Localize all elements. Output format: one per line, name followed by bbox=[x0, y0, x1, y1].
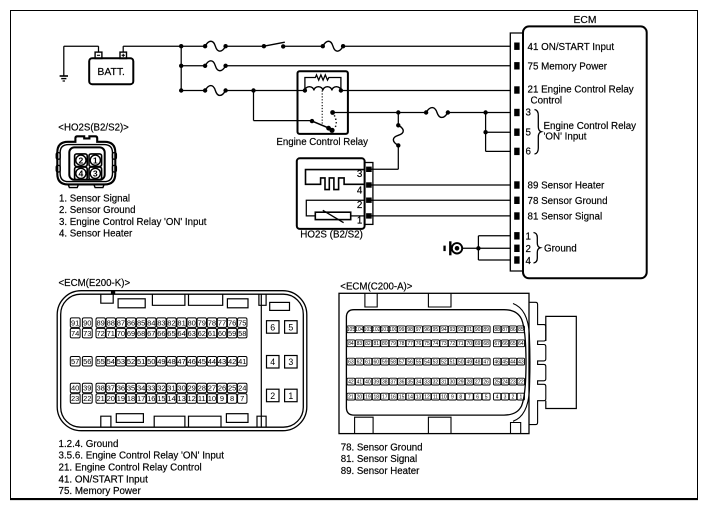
svg-text:60: 60 bbox=[374, 360, 380, 366]
svg-text:13: 13 bbox=[177, 394, 185, 403]
svg-text:27: 27 bbox=[475, 380, 481, 386]
svg-text:59: 59 bbox=[228, 329, 236, 338]
svg-text:8: 8 bbox=[459, 395, 462, 401]
svg-text:16: 16 bbox=[147, 394, 155, 403]
svg-text:58: 58 bbox=[238, 329, 246, 338]
wire to ECM pin 2 bbox=[478, 247, 511, 249]
svg-text:86: 86 bbox=[510, 327, 516, 333]
svg-text:91: 91 bbox=[71, 318, 79, 327]
svg-text:42: 42 bbox=[348, 380, 354, 386]
svg-text:3: 3 bbox=[288, 357, 293, 367]
svg-text:78: 78 bbox=[399, 341, 405, 347]
node E junction (x478,y248) bbox=[476, 246, 480, 250]
svg-text:51: 51 bbox=[137, 357, 145, 366]
svg-text:101: 101 bbox=[381, 327, 390, 333]
ECM connector strip bbox=[510, 33, 523, 271]
svg-text:55: 55 bbox=[97, 357, 105, 366]
svg-text:73: 73 bbox=[441, 341, 447, 347]
svg-text:97: 97 bbox=[416, 327, 422, 333]
svg-text:16: 16 bbox=[390, 395, 396, 401]
svg-text:84: 84 bbox=[348, 341, 354, 347]
svg-text:30: 30 bbox=[450, 380, 456, 386]
svg-text:74: 74 bbox=[71, 329, 79, 338]
svg-text:18: 18 bbox=[374, 395, 380, 401]
body ground symbol bbox=[443, 241, 462, 255]
wire relay output to node C bbox=[333, 112, 399, 114]
wire row1 node A to fuse F1 bbox=[181, 45, 205, 47]
svg-text:44: 44 bbox=[208, 357, 216, 366]
svg-text:62: 62 bbox=[357, 360, 363, 366]
svg-text:105: 105 bbox=[347, 327, 356, 333]
node A junction (x181,y46) bbox=[179, 44, 183, 48]
svg-text:78. Sensor Ground: 78. Sensor Ground bbox=[341, 443, 423, 454]
svg-text:60: 60 bbox=[218, 329, 226, 338]
svg-text:81: 81 bbox=[177, 318, 185, 327]
svg-text:1: 1 bbox=[519, 395, 522, 401]
svg-text:90: 90 bbox=[83, 318, 91, 327]
svg-text:7: 7 bbox=[240, 394, 244, 403]
svg-text:57: 57 bbox=[399, 360, 405, 366]
svg-text:Engine Control Relay: Engine Control Relay bbox=[276, 137, 368, 148]
svg-text:58: 58 bbox=[390, 360, 396, 366]
wire row3 bus to fuse F4 bbox=[181, 90, 205, 92]
relay switch blade and contacts bbox=[310, 110, 336, 133]
svg-text:24: 24 bbox=[502, 380, 508, 386]
HO2S pin 1 terminal bbox=[367, 214, 372, 218]
svg-text:12: 12 bbox=[188, 394, 196, 403]
svg-text:86: 86 bbox=[127, 318, 135, 327]
svg-text:3. Engine Control Relay 'ON': 3. Engine Control Relay 'ON' Input bbox=[59, 217, 207, 228]
svg-text:82: 82 bbox=[167, 318, 175, 327]
svg-text:4. Sensor Heater: 4. Sensor Heater bbox=[59, 229, 133, 240]
svg-text:75. Memory Power: 75. Memory Power bbox=[59, 486, 142, 497]
svg-text:6: 6 bbox=[526, 146, 532, 157]
svg-text:54: 54 bbox=[107, 357, 115, 366]
svg-text:48: 48 bbox=[475, 360, 481, 366]
svg-text:68: 68 bbox=[137, 329, 145, 338]
svg-text:2: 2 bbox=[270, 391, 275, 401]
svg-text:69: 69 bbox=[475, 341, 481, 347]
svg-text:1: 1 bbox=[93, 155, 98, 165]
wire to ECM pin 4 bbox=[478, 259, 511, 261]
svg-text:1. Sensor Signal: 1. Sensor Signal bbox=[59, 193, 130, 204]
HO2S signal element (square wave) bbox=[306, 170, 365, 190]
C200-A connector housing bbox=[339, 293, 576, 433]
svg-text:50: 50 bbox=[458, 360, 464, 366]
svg-text:88: 88 bbox=[107, 318, 115, 327]
wire node C to fuse F5 bbox=[398, 112, 426, 114]
svg-text:20: 20 bbox=[357, 395, 363, 401]
svg-text:13: 13 bbox=[416, 395, 422, 401]
svg-text:26: 26 bbox=[218, 384, 226, 393]
svg-text:37: 37 bbox=[390, 380, 396, 386]
svg-text:63: 63 bbox=[188, 329, 196, 338]
ECM box bbox=[523, 26, 647, 278]
svg-text:18: 18 bbox=[127, 394, 135, 403]
svg-text:50: 50 bbox=[147, 357, 155, 366]
wire fuse F1 to switch S1 bbox=[226, 45, 264, 47]
svg-text:1: 1 bbox=[526, 231, 531, 242]
svg-text:92: 92 bbox=[458, 327, 464, 333]
E200-K pin row 74-58 bbox=[70, 328, 247, 338]
node C junction (x399,y112) bbox=[396, 110, 400, 114]
HO2S connector cavities 2-1-4-3 bbox=[75, 154, 102, 180]
svg-text:40: 40 bbox=[71, 384, 79, 393]
svg-text:10: 10 bbox=[441, 395, 447, 401]
wire body ground to node E bbox=[462, 247, 478, 249]
ground bus vertical pins 1-2-4 bbox=[477, 236, 479, 260]
svg-text:77: 77 bbox=[218, 318, 226, 327]
svg-text:1: 1 bbox=[288, 391, 293, 401]
svg-text:1: 1 bbox=[357, 216, 362, 227]
svg-text:52: 52 bbox=[441, 360, 447, 366]
svg-text:82: 82 bbox=[365, 341, 371, 347]
svg-text:39: 39 bbox=[374, 380, 380, 386]
svg-text:3.5.6. Engine Control Relay ': 3.5.6. Engine Control Relay 'ON' Input bbox=[59, 451, 225, 462]
svg-text:<HO2S(B2/S2)>: <HO2S(B2/S2)> bbox=[58, 122, 129, 133]
svg-text:4: 4 bbox=[270, 357, 275, 367]
svg-text:34: 34 bbox=[137, 384, 145, 393]
svg-text:'ON' Input: 'ON' Input bbox=[544, 132, 587, 143]
wire to ECM pin 5 bbox=[486, 131, 511, 133]
svg-text:11: 11 bbox=[198, 394, 206, 403]
wire relay coil to ECM pin 21 bbox=[341, 90, 511, 92]
svg-text:41: 41 bbox=[357, 380, 363, 386]
C200-A pin row 21-1 bbox=[347, 393, 525, 400]
svg-text:23: 23 bbox=[510, 380, 516, 386]
svg-text:91: 91 bbox=[466, 327, 472, 333]
svg-text:77: 77 bbox=[407, 341, 413, 347]
svg-text:81 Sensor Signal: 81 Sensor Signal bbox=[528, 212, 603, 223]
svg-text:48: 48 bbox=[167, 357, 175, 366]
svg-text:46: 46 bbox=[494, 360, 500, 366]
svg-text:33: 33 bbox=[147, 384, 155, 393]
svg-text:27: 27 bbox=[208, 384, 216, 393]
C200-A pin row 84-64 bbox=[347, 340, 525, 347]
HO2S connector strip bbox=[365, 163, 373, 225]
svg-text:68: 68 bbox=[483, 341, 489, 347]
C200-A pin row 105-85 bbox=[347, 326, 525, 333]
svg-text:21 Engine Control Relay: 21 Engine Control Relay bbox=[528, 85, 634, 96]
svg-text:98: 98 bbox=[407, 327, 413, 333]
svg-text:31: 31 bbox=[167, 384, 175, 393]
svg-text:54: 54 bbox=[424, 360, 430, 366]
svg-text:46: 46 bbox=[188, 357, 196, 366]
svg-text:89. Sensor Heater: 89. Sensor Heater bbox=[341, 466, 420, 477]
svg-text:61: 61 bbox=[208, 329, 216, 338]
svg-text:9: 9 bbox=[220, 394, 224, 403]
wire node B to relay coil bbox=[254, 90, 305, 92]
svg-text:2: 2 bbox=[357, 200, 362, 211]
svg-text:64: 64 bbox=[177, 329, 185, 338]
fuse F6 (vertical, HO2S relay feed) bbox=[393, 125, 403, 145]
wire to ECM pin 6 bbox=[486, 150, 511, 152]
svg-text:36: 36 bbox=[399, 380, 405, 386]
svg-text:37: 37 bbox=[107, 384, 115, 393]
svg-text:2: 2 bbox=[526, 244, 531, 255]
svg-text:74: 74 bbox=[433, 341, 439, 347]
svg-text:20: 20 bbox=[107, 394, 115, 403]
svg-text:49: 49 bbox=[157, 357, 165, 366]
HO2S pin 4 terminal bbox=[367, 183, 372, 187]
svg-text:52: 52 bbox=[127, 357, 135, 366]
svg-text:15: 15 bbox=[157, 394, 165, 403]
svg-text:BATT.: BATT. bbox=[97, 67, 125, 78]
wire node C down to fuse F6 bbox=[397, 113, 399, 126]
svg-text:36: 36 bbox=[117, 384, 125, 393]
bus vertical wire node A down bbox=[180, 46, 182, 90]
svg-text:14: 14 bbox=[167, 394, 175, 403]
svg-text:2. Sensor Ground: 2. Sensor Ground bbox=[59, 205, 135, 216]
svg-text:85: 85 bbox=[137, 318, 145, 327]
svg-text:66: 66 bbox=[502, 341, 508, 347]
svg-text:34: 34 bbox=[416, 380, 422, 386]
svg-text:64: 64 bbox=[518, 341, 524, 347]
svg-text:45: 45 bbox=[198, 357, 206, 366]
svg-text:67: 67 bbox=[147, 329, 155, 338]
svg-text:17: 17 bbox=[137, 394, 145, 403]
svg-text:17: 17 bbox=[382, 395, 388, 401]
relay coil L1 bbox=[305, 87, 341, 91]
HO2S sensor box bbox=[297, 158, 365, 229]
svg-text:76: 76 bbox=[228, 318, 236, 327]
svg-text:6: 6 bbox=[476, 395, 479, 401]
svg-text:5: 5 bbox=[526, 127, 532, 138]
svg-text:81: 81 bbox=[374, 341, 380, 347]
svg-text:1.2.4. Ground: 1.2.4. Ground bbox=[59, 439, 119, 450]
svg-text:70: 70 bbox=[117, 329, 125, 338]
svg-text:44: 44 bbox=[510, 360, 516, 366]
svg-text:72: 72 bbox=[450, 341, 456, 347]
relay box Engine Control Relay bbox=[298, 71, 348, 134]
svg-text:99: 99 bbox=[399, 327, 405, 333]
wire HO2S pin 1 to ECM pin 81 bbox=[371, 215, 511, 217]
svg-text:5: 5 bbox=[288, 322, 293, 332]
svg-text:42: 42 bbox=[228, 357, 236, 366]
HO2S heater resistor bbox=[306, 200, 364, 223]
svg-text:90: 90 bbox=[475, 327, 481, 333]
svg-text:5: 5 bbox=[485, 395, 488, 401]
svg-text:96: 96 bbox=[424, 327, 430, 333]
brace for pins 3-5-6 bbox=[535, 110, 542, 155]
svg-text:39: 39 bbox=[83, 384, 91, 393]
svg-text:51: 51 bbox=[450, 360, 456, 366]
wire HO2S pin 2 to ECM pin 78 bbox=[371, 199, 511, 201]
E200-K pin row 23-7 bbox=[70, 394, 247, 404]
wire battery positive to node A bbox=[123, 46, 181, 52]
svg-text:14: 14 bbox=[407, 395, 413, 401]
svg-text:HO2S (B2/S2): HO2S (B2/S2) bbox=[300, 230, 363, 241]
svg-text:45: 45 bbox=[502, 360, 508, 366]
svg-text:71: 71 bbox=[458, 341, 464, 347]
svg-text:93: 93 bbox=[450, 327, 456, 333]
svg-text:32: 32 bbox=[157, 384, 165, 393]
svg-text:49: 49 bbox=[466, 360, 472, 366]
brace for pins 1-2-4 bbox=[534, 233, 541, 264]
svg-text:2: 2 bbox=[512, 395, 515, 401]
svg-text:100: 100 bbox=[389, 327, 398, 333]
svg-text:55: 55 bbox=[416, 360, 422, 366]
wire switch S1 to fuse F2 bbox=[283, 45, 323, 47]
E200-K pins 1-6 bbox=[267, 321, 298, 402]
svg-text:80: 80 bbox=[382, 341, 388, 347]
wire fuse F5 to node D bbox=[448, 112, 486, 114]
wire fuse F6 to HO2S pin 3 bbox=[371, 145, 398, 169]
svg-text:78: 78 bbox=[208, 318, 216, 327]
wire fuse F3 to ECM pin 75 bbox=[226, 65, 511, 67]
svg-text:59: 59 bbox=[382, 360, 388, 366]
svg-text:19: 19 bbox=[117, 394, 125, 403]
wire node D to ECM pin 3 bbox=[486, 112, 511, 114]
svg-text:85: 85 bbox=[518, 327, 524, 333]
svg-text:43: 43 bbox=[518, 360, 524, 366]
vertical wire node D to pins 5 and 6 bbox=[485, 113, 487, 152]
svg-text:<ECM(C200-A)>: <ECM(C200-A)> bbox=[340, 282, 412, 293]
E200-K pin row 40-24 bbox=[70, 383, 247, 393]
svg-text:29: 29 bbox=[188, 384, 196, 393]
svg-text:21. Engine Control Relay Cont: 21. Engine Control Relay Control bbox=[59, 462, 202, 473]
svg-text:75: 75 bbox=[238, 318, 246, 327]
svg-text:41: 41 bbox=[238, 357, 246, 366]
svg-text:31: 31 bbox=[441, 380, 447, 386]
fuse F1 (ON/START row) bbox=[205, 41, 226, 51]
relay actuation dotted link bbox=[321, 91, 323, 125]
svg-text:19: 19 bbox=[365, 395, 371, 401]
svg-text:Engine Control Relay: Engine Control Relay bbox=[544, 121, 637, 132]
wire HO2S pin 4 to ECM pin 89 bbox=[371, 184, 511, 186]
svg-text:8: 8 bbox=[230, 394, 234, 403]
svg-text:11: 11 bbox=[433, 395, 438, 401]
svg-text:53: 53 bbox=[433, 360, 439, 366]
svg-text:47: 47 bbox=[177, 357, 185, 366]
svg-text:3: 3 bbox=[357, 169, 363, 180]
svg-text:21: 21 bbox=[348, 395, 354, 401]
svg-text:35: 35 bbox=[407, 380, 413, 386]
svg-text:12: 12 bbox=[424, 395, 430, 401]
wire row2 node A2 to fuse F3 bbox=[181, 65, 205, 67]
ground (battery earth ground) bbox=[60, 46, 68, 81]
svg-text:89: 89 bbox=[483, 327, 489, 333]
svg-text:89: 89 bbox=[97, 318, 105, 327]
wire to ECM pin 1 bbox=[478, 235, 511, 237]
node D junction (x485,y112) bbox=[483, 110, 487, 114]
svg-text:33: 33 bbox=[424, 380, 430, 386]
svg-text:81. Sensor Signal: 81. Sensor Signal bbox=[341, 454, 417, 465]
svg-text:22: 22 bbox=[83, 394, 91, 403]
svg-text:103: 103 bbox=[364, 327, 373, 333]
wire node B branch down to relay switch bbox=[254, 91, 312, 121]
svg-text:32: 32 bbox=[433, 380, 439, 386]
svg-text:69: 69 bbox=[127, 329, 135, 338]
svg-text:83: 83 bbox=[157, 318, 165, 327]
E200-K pin row 57-41 bbox=[70, 357, 247, 367]
svg-text:10: 10 bbox=[208, 394, 216, 403]
svg-text:53: 53 bbox=[117, 357, 125, 366]
svg-text:21: 21 bbox=[97, 394, 105, 403]
switch S1 ignition switch bbox=[262, 42, 286, 48]
svg-text:3: 3 bbox=[526, 107, 532, 118]
relay resistor (parallel to coil) bbox=[305, 75, 341, 91]
svg-text:28: 28 bbox=[466, 380, 472, 386]
fuse F2 (ON/START row) bbox=[323, 41, 343, 51]
svg-text:79: 79 bbox=[390, 341, 396, 347]
svg-text:15: 15 bbox=[399, 395, 405, 401]
svg-text:79: 79 bbox=[198, 318, 206, 327]
svg-text:83: 83 bbox=[357, 341, 363, 347]
svg-text:71: 71 bbox=[107, 329, 115, 338]
svg-text:Ground: Ground bbox=[544, 244, 577, 255]
svg-text:76: 76 bbox=[416, 341, 422, 347]
svg-text:102: 102 bbox=[372, 327, 381, 333]
svg-text:2: 2 bbox=[79, 155, 84, 165]
svg-text:26: 26 bbox=[483, 380, 489, 386]
svg-text:Control: Control bbox=[531, 95, 563, 106]
HO2S connector housing bbox=[56, 136, 116, 187]
svg-text:9: 9 bbox=[451, 395, 454, 401]
svg-text:22: 22 bbox=[518, 380, 524, 386]
svg-text:65: 65 bbox=[510, 341, 516, 347]
svg-text:75 Memory Power: 75 Memory Power bbox=[528, 61, 608, 72]
C200-A pin row 63-43 bbox=[347, 358, 525, 365]
battery BATT. bbox=[89, 52, 133, 84]
svg-text:47: 47 bbox=[483, 360, 489, 366]
svg-text:23: 23 bbox=[71, 394, 79, 403]
svg-text:78 Sensor Ground: 78 Sensor Ground bbox=[528, 196, 608, 207]
svg-text:87: 87 bbox=[117, 318, 125, 327]
fuse F4 (relay supply row) bbox=[205, 86, 226, 96]
svg-text:4: 4 bbox=[526, 256, 532, 267]
E200-K pin row 91-75 bbox=[70, 318, 247, 328]
C200-A pin row 42-22 bbox=[347, 378, 525, 385]
svg-text:41 ON/START Input: 41 ON/START Input bbox=[528, 42, 615, 53]
svg-text:80: 80 bbox=[188, 318, 196, 327]
svg-text:38: 38 bbox=[382, 380, 388, 386]
svg-text:75: 75 bbox=[424, 341, 430, 347]
svg-text:88: 88 bbox=[494, 327, 500, 333]
svg-text:4: 4 bbox=[79, 169, 84, 179]
svg-text:43: 43 bbox=[218, 357, 226, 366]
svg-text:6: 6 bbox=[270, 322, 275, 332]
fuse F5 (relay ON input) bbox=[426, 108, 448, 118]
svg-text:67: 67 bbox=[494, 341, 500, 347]
svg-text:29: 29 bbox=[458, 380, 464, 386]
ECM pin terminals bbox=[515, 43, 520, 263]
node D2 junction (x485,y132) bbox=[483, 130, 487, 134]
fuse F3 (Memory Power row) bbox=[205, 61, 226, 71]
svg-text:56: 56 bbox=[407, 360, 413, 366]
svg-text:72: 72 bbox=[97, 329, 105, 338]
svg-text:65: 65 bbox=[167, 329, 175, 338]
svg-text:87: 87 bbox=[502, 327, 508, 333]
svg-text:57: 57 bbox=[71, 357, 79, 366]
svg-text:95: 95 bbox=[433, 327, 439, 333]
node B junction (x253,y90) bbox=[251, 88, 255, 92]
svg-text:56: 56 bbox=[83, 357, 91, 366]
svg-text:38: 38 bbox=[97, 384, 105, 393]
svg-text:25: 25 bbox=[228, 384, 236, 393]
svg-text:89 Sensor Heater: 89 Sensor Heater bbox=[528, 181, 606, 192]
svg-text:<ECM(E200-K)>: <ECM(E200-K)> bbox=[59, 278, 131, 289]
svg-text:62: 62 bbox=[198, 329, 206, 338]
wire fuse F2 to ECM pin 41 bbox=[343, 45, 511, 47]
HO2S pin 2 terminal bbox=[367, 198, 372, 202]
svg-text:94: 94 bbox=[441, 327, 447, 333]
svg-text:7: 7 bbox=[468, 395, 471, 401]
svg-text:61: 61 bbox=[365, 360, 371, 366]
svg-text:104: 104 bbox=[355, 327, 364, 333]
svg-text:ECM: ECM bbox=[574, 15, 597, 26]
svg-text:24: 24 bbox=[238, 384, 246, 393]
